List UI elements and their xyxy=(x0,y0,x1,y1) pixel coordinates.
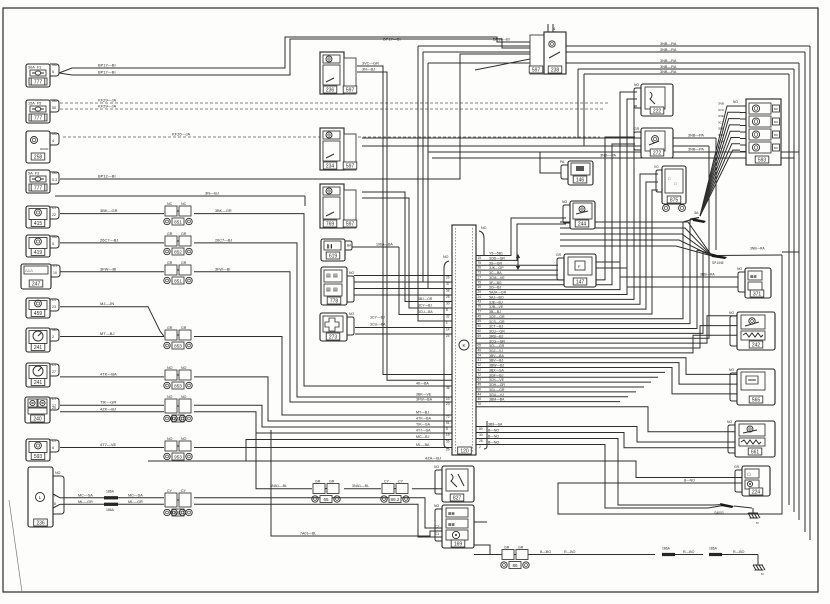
svg-text:76: 76 xyxy=(478,402,482,406)
svg-text:5: 5 xyxy=(52,70,54,74)
svg-text:4TK—BA: 4TK—BA xyxy=(100,371,117,376)
svg-text:MC—BJ: MC—BJ xyxy=(416,435,430,439)
svg-text:4: 4 xyxy=(52,139,54,143)
svg-text:▩▩: ▩▩ xyxy=(448,512,455,516)
svg-text:3OD—GR: 3OD—GR xyxy=(489,256,505,260)
svg-text:30A F1: 30A F1 xyxy=(28,66,41,70)
svg-text:C7: C7 xyxy=(52,439,57,443)
svg-text:NO: NO xyxy=(52,132,58,136)
svg-text:3GU—VJ: 3GU—VJ xyxy=(489,393,504,397)
svg-text:C7: C7 xyxy=(52,363,57,367)
svg-text:GR: GR xyxy=(167,326,173,330)
svg-text:224: 224 xyxy=(752,489,761,495)
svg-text:3CK: 3CK xyxy=(718,146,724,150)
svg-text:GR: GR xyxy=(329,480,335,484)
svg-text:75: 75 xyxy=(478,305,482,309)
svg-text:16: 16 xyxy=(478,285,482,289)
svg-text:3NB—RA: 3NB—RA xyxy=(660,42,677,46)
svg-text:51: 51 xyxy=(446,421,450,425)
svg-text:7A01—BL: 7A01—BL xyxy=(300,532,316,536)
svg-text:186A: 186A xyxy=(709,547,718,551)
svg-text:65: 65 xyxy=(478,344,482,348)
svg-text:B—BO: B—BO xyxy=(540,550,551,554)
svg-text:3A: 3A xyxy=(694,211,699,215)
svg-text:C2: C2 xyxy=(435,525,439,529)
svg-text:3JK—GP: 3JK—GP xyxy=(489,266,504,270)
svg-text:186A: 186A xyxy=(106,490,115,494)
svg-text:3CU: 3CU xyxy=(718,108,724,112)
svg-text:3CY—BJ: 3CY—BJ xyxy=(418,304,432,308)
svg-text:3CG—GR: 3CG—GR xyxy=(489,339,505,343)
svg-text:R—BO: R—BO xyxy=(733,550,745,554)
svg-text:240: 240 xyxy=(33,416,42,422)
svg-text:NO: NO xyxy=(181,437,187,441)
svg-text:BP17—BI: BP17—BI xyxy=(493,37,510,41)
svg-text:G4003: G4003 xyxy=(714,511,724,515)
svg-text:C7: C7 xyxy=(52,298,57,302)
svg-text:241: 241 xyxy=(34,380,43,386)
svg-text:3NB—RA: 3NB—RA xyxy=(660,48,677,52)
svg-text:GR: GR xyxy=(167,261,173,265)
svg-text:MJ—JN: MJ—JN xyxy=(100,301,114,306)
svg-text:NO: NO xyxy=(52,328,58,332)
svg-text:30: 30 xyxy=(479,433,483,437)
svg-text:4T7—VE: 4T7—VE xyxy=(100,442,117,447)
svg-text:247: 247 xyxy=(32,281,41,287)
svg-text:769: 769 xyxy=(326,221,335,227)
svg-text:236: 236 xyxy=(326,87,335,93)
svg-text:NC: NC xyxy=(167,202,173,206)
svg-text:1: 1 xyxy=(446,321,448,325)
svg-text:12: 12 xyxy=(478,363,482,367)
svg-text:NO: NO xyxy=(729,368,734,372)
svg-text:3CM—VE: 3CM—VE xyxy=(489,276,505,280)
svg-text:49: 49 xyxy=(478,348,482,352)
svg-text:GR: GR xyxy=(556,253,562,257)
svg-text:NO: NO xyxy=(733,100,738,104)
svg-text:3NB—RA: 3NB—RA xyxy=(660,70,677,74)
svg-text:TIK—SA: TIK—SA xyxy=(416,423,431,427)
svg-text:ML—GR: ML—GR xyxy=(78,500,93,504)
svg-text:2: 2 xyxy=(52,335,54,339)
svg-text:3NB—RA: 3NB—RA xyxy=(700,273,715,277)
svg-text:75: 75 xyxy=(478,280,482,284)
svg-text:3NB—PA: 3NB—PA xyxy=(688,148,704,152)
svg-text:4ZA—BJ: 4ZA—BJ xyxy=(425,456,441,461)
svg-text:661: 661 xyxy=(751,449,760,455)
svg-text:777: 777 xyxy=(34,79,43,85)
svg-text:44: 44 xyxy=(478,392,482,396)
svg-text:NO: NO xyxy=(52,235,58,239)
svg-text:41: 41 xyxy=(478,358,482,362)
svg-text:MC—SA: MC—SA xyxy=(128,493,143,497)
svg-text:NO: NO xyxy=(349,271,354,275)
svg-text:258: 258 xyxy=(34,154,43,160)
svg-text:3B—BJ: 3B—BJ xyxy=(489,310,501,314)
svg-text:NO: NO xyxy=(481,226,487,230)
svg-text:ML—BA: ML—BA xyxy=(416,443,430,447)
svg-text:3BK—VE: 3BK—VE xyxy=(416,393,432,397)
svg-text:3CE—GR: 3CE—GR xyxy=(489,315,505,319)
svg-text:KF29—JA: KF29—JA xyxy=(98,98,117,103)
svg-text:3JB—VE: 3JB—VE xyxy=(489,305,504,309)
svg-text:244: 244 xyxy=(578,221,587,227)
svg-text:3CK—VE: 3CK—VE xyxy=(489,378,505,382)
svg-text:2: 2 xyxy=(479,445,481,449)
svg-text:73: 73 xyxy=(478,271,482,275)
svg-text:3VC—GR: 3VC—GR xyxy=(362,62,379,66)
svg-text:KF26—JA: KF26—JA xyxy=(172,132,191,137)
svg-text:GR: GR xyxy=(634,127,640,131)
svg-text:7: 7 xyxy=(54,494,56,498)
svg-text:C1: C1 xyxy=(435,532,439,536)
svg-text:3BV—BA: 3BV—BA xyxy=(489,354,504,358)
svg-text:72: 72 xyxy=(446,415,450,419)
svg-text:BP17—BI: BP17—BI xyxy=(98,70,116,75)
svg-text:597: 597 xyxy=(346,221,355,227)
svg-text:CY: CY xyxy=(398,480,404,484)
svg-text:3BK—GR: 3BK—GR xyxy=(215,209,232,213)
svg-text:241: 241 xyxy=(34,345,43,351)
svg-text:45: 45 xyxy=(478,314,482,318)
svg-text:74: 74 xyxy=(478,353,482,357)
svg-text:853: 853 xyxy=(174,383,182,388)
svg-text:C7: C7 xyxy=(53,264,58,268)
svg-text:593: 593 xyxy=(758,157,767,163)
svg-text:5AJA—GR: 5AJA—GR xyxy=(489,291,507,295)
svg-text:B—NO: B—NO xyxy=(684,479,695,483)
svg-text:3NA1—BL: 3NA1—BL xyxy=(270,484,287,488)
svg-text:CY: CY xyxy=(181,489,187,493)
svg-text:851: 851 xyxy=(174,278,182,283)
svg-text:3B9—SA: 3B9—SA xyxy=(488,423,503,427)
svg-text:NO: NO xyxy=(52,63,58,67)
svg-text:8: 8 xyxy=(54,502,56,506)
svg-text:NO: NO xyxy=(434,465,439,469)
svg-text:86: 86 xyxy=(512,563,518,568)
svg-text:BP17—BI: BP17—BI xyxy=(98,63,116,68)
svg-text:86.2: 86.2 xyxy=(391,497,400,502)
svg-text:565: 565 xyxy=(752,397,761,403)
svg-text:14: 14 xyxy=(446,328,450,332)
svg-text:60: 60 xyxy=(478,329,482,333)
svg-text:▤: ▤ xyxy=(333,273,338,279)
svg-text:3S—GR: 3S—GR xyxy=(489,261,503,265)
svg-text:147: 147 xyxy=(576,279,585,285)
svg-text:MT—BJ: MT—BJ xyxy=(416,411,429,415)
svg-text:619: 619 xyxy=(329,253,338,259)
svg-text:28: 28 xyxy=(479,439,483,443)
svg-text:3CU—GR: 3CU—GR xyxy=(489,330,505,334)
svg-text:NO: NO xyxy=(167,437,173,441)
svg-text:VO: VO xyxy=(654,165,659,169)
svg-text:▩▩: ▩▩ xyxy=(750,275,757,279)
svg-text:GR: GR xyxy=(315,480,321,484)
svg-text:15: 15 xyxy=(478,256,482,260)
svg-text:BP12—BI: BP12—BI xyxy=(98,174,116,179)
svg-text:GR: GR xyxy=(181,261,187,265)
svg-text:3GL—GR: 3GL—GR xyxy=(489,388,505,392)
svg-text:4K—BA: 4K—BA xyxy=(416,382,429,386)
svg-text:B—NO: B—NO xyxy=(488,441,499,445)
svg-text:3CA: 3CA xyxy=(718,133,724,137)
svg-text:GR: GR xyxy=(734,465,740,469)
svg-text:272: 272 xyxy=(653,150,662,156)
svg-text:3OH—GR: 3OH—GR xyxy=(489,383,505,387)
svg-text:3BK—GR: 3BK—GR xyxy=(100,208,118,213)
svg-text:5A F3: 5A F3 xyxy=(28,172,39,176)
svg-text:3FW—BA: 3FW—BA xyxy=(416,398,433,402)
svg-text:▤: ▤ xyxy=(333,287,338,293)
svg-text:3N—BJ: 3N—BJ xyxy=(362,68,375,72)
svg-text:NO: NO xyxy=(52,99,58,103)
svg-text:CY: CY xyxy=(384,480,390,484)
svg-text:120: 120 xyxy=(460,448,469,454)
svg-text:3FW—BI: 3FW—BI xyxy=(215,267,230,271)
svg-text:3N—BJ: 3N—BJ xyxy=(205,191,219,196)
svg-text:SP.LINE: SP.LINE xyxy=(712,261,724,265)
svg-text:851: 851 xyxy=(174,219,182,224)
svg-text:8: 8 xyxy=(446,308,448,312)
svg-text:NC: NC xyxy=(181,202,187,206)
svg-text:10: 10 xyxy=(446,397,450,401)
svg-text:GR: GR xyxy=(181,326,187,330)
svg-text:3BV—BJ: 3BV—BJ xyxy=(489,359,503,363)
svg-text:3NB—RA: 3NB—RA xyxy=(660,65,677,69)
svg-text:NO: NO xyxy=(562,200,567,204)
svg-text:△△△: △△△ xyxy=(25,269,33,273)
svg-text:222: 222 xyxy=(653,108,662,114)
svg-text:56: 56 xyxy=(446,440,450,444)
svg-text:4ZK—BJ: 4ZK—BJ xyxy=(100,406,116,411)
svg-text:17: 17 xyxy=(478,275,482,279)
svg-text:597: 597 xyxy=(346,163,355,169)
svg-text:50: 50 xyxy=(478,324,482,328)
svg-text:▢: ▢ xyxy=(747,473,751,477)
svg-text:3CU—BA: 3CU—BA xyxy=(370,323,386,327)
svg-text:146: 146 xyxy=(576,177,585,183)
svg-text:3G—BJ: 3G—BJ xyxy=(489,286,502,290)
svg-text:778: 778 xyxy=(330,298,339,304)
svg-text:45: 45 xyxy=(478,383,482,387)
svg-text:30: 30 xyxy=(446,302,450,306)
svg-text:GR: GR xyxy=(181,232,187,236)
svg-text:3NB: 3NB xyxy=(718,102,724,106)
svg-text:3NB—RA: 3NB—RA xyxy=(750,247,765,251)
svg-text:3GJ—VJ: 3GJ—VJ xyxy=(489,349,503,353)
svg-text:15A F5: 15A F5 xyxy=(28,102,41,106)
svg-text:B—NO: B—NO xyxy=(488,435,499,439)
svg-text:NO: NO xyxy=(167,366,173,370)
svg-text:K: K xyxy=(462,343,465,348)
svg-text:273: 273 xyxy=(329,334,338,340)
svg-text:10: 10 xyxy=(53,271,57,275)
svg-text:▤: ▤ xyxy=(326,287,331,293)
svg-text:NO: NO xyxy=(181,366,187,370)
svg-text:597: 597 xyxy=(346,87,355,93)
svg-text:NO: NO xyxy=(634,83,639,87)
svg-text:GR: GR xyxy=(518,546,524,550)
svg-text:3NB—PA: 3NB—PA xyxy=(600,154,616,158)
svg-text:777: 777 xyxy=(34,185,43,191)
svg-text:29: 29 xyxy=(478,290,482,294)
svg-text:00000: 00000 xyxy=(40,147,49,151)
svg-text:186A: 186A xyxy=(106,508,115,512)
svg-text:169: 169 xyxy=(454,541,463,547)
svg-text:875: 875 xyxy=(670,197,679,203)
svg-text:32: 32 xyxy=(446,315,450,319)
svg-text:46: 46 xyxy=(478,397,482,401)
svg-text:80: 80 xyxy=(479,427,483,431)
svg-text:72: 72 xyxy=(478,373,482,377)
svg-text:19: 19 xyxy=(446,433,450,437)
svg-text:23: 23 xyxy=(52,305,56,309)
svg-text:37: 37 xyxy=(446,282,450,286)
svg-text:27: 27 xyxy=(52,370,56,374)
svg-text:777: 777 xyxy=(34,115,43,121)
svg-text:69: 69 xyxy=(478,334,482,338)
svg-text:NO: NO xyxy=(729,311,734,315)
svg-text:3CT—BJ: 3CT—BJ xyxy=(489,325,503,329)
svg-text:26C7—BJ: 26C7—BJ xyxy=(215,238,232,242)
svg-text:▩▩: ▩▩ xyxy=(448,523,455,527)
svg-text:NO: NO xyxy=(55,471,61,475)
svg-text:196A—BA: 196A—BA xyxy=(376,243,393,247)
svg-text:90: 90 xyxy=(478,387,482,391)
svg-text:853: 853 xyxy=(174,343,182,348)
svg-text:B—NO: B—NO xyxy=(488,429,499,433)
svg-text:953: 953 xyxy=(174,454,182,459)
svg-text:KF29—JA: KF29—JA xyxy=(98,104,117,109)
svg-text:22: 22 xyxy=(52,213,56,217)
svg-text:827: 827 xyxy=(453,495,462,501)
svg-text:ML—GR: ML—GR xyxy=(128,500,143,504)
svg-text:3C—BA: 3C—BA xyxy=(489,271,502,275)
svg-text:3NA1—BL: 3NA1—BL xyxy=(352,484,369,488)
svg-text:NO: NO xyxy=(737,267,742,271)
svg-text:NO: NO xyxy=(443,255,449,259)
svg-text:3CY—BJ: 3CY—BJ xyxy=(370,316,385,320)
svg-text:3NB: 3NB xyxy=(718,127,724,131)
svg-text:3F—BG: 3F—BG xyxy=(489,281,502,285)
svg-text:236: 236 xyxy=(36,520,45,526)
svg-text:3BW—BJ: 3BW—BJ xyxy=(489,364,504,368)
svg-text:5: 5 xyxy=(52,242,54,246)
svg-text:NO: NO xyxy=(434,504,439,508)
svg-text:NO: NO xyxy=(349,312,354,316)
svg-text:R—BO: R—BO xyxy=(683,550,695,554)
svg-text:371: 371 xyxy=(753,291,762,297)
svg-text:63: 63 xyxy=(478,378,482,382)
svg-text:6: 6 xyxy=(52,446,54,450)
svg-text:3NB—RA: 3NB—RA xyxy=(660,59,677,63)
svg-text:26: 26 xyxy=(478,266,482,270)
svg-text:R—BO: R—BO xyxy=(564,550,576,554)
svg-text:NO: NO xyxy=(167,395,173,399)
svg-text:5AJ—BO: 5AJ—BO xyxy=(489,295,504,299)
svg-text:3NB—PA: 3NB—PA xyxy=(688,134,704,138)
svg-text:3RB—BJ: 3RB—BJ xyxy=(489,334,504,338)
svg-text:MC—SA: MC—SA xyxy=(78,493,93,497)
svg-text:4T7—SA: 4T7—SA xyxy=(416,429,431,433)
svg-text:242: 242 xyxy=(752,342,761,348)
svg-text:43: 43 xyxy=(478,300,482,304)
svg-text:BP17—BI: BP17—BI xyxy=(383,37,401,42)
svg-text:TIK—GR: TIK—GR xyxy=(100,400,116,405)
svg-text:4BJ—GR: 4BJ—GR xyxy=(418,297,433,301)
svg-text:3GF—BJ: 3GF—BJ xyxy=(489,373,504,377)
svg-text:23: 23 xyxy=(446,402,450,406)
svg-text:5.3: 5.3 xyxy=(52,178,57,182)
svg-text:36: 36 xyxy=(446,386,450,390)
svg-text:55: 55 xyxy=(52,106,56,110)
svg-text:459: 459 xyxy=(34,311,43,317)
svg-text:3CS—GR: 3CS—GR xyxy=(489,320,505,324)
svg-text:419: 419 xyxy=(34,250,43,256)
svg-text:58: 58 xyxy=(446,289,450,293)
svg-text:4TK—BA: 4TK—BA xyxy=(416,417,432,421)
svg-text:24: 24 xyxy=(446,334,450,338)
svg-text:3NE: 3NE xyxy=(718,114,724,118)
svg-text:42: 42 xyxy=(478,368,482,372)
svg-text:C7: C7 xyxy=(52,397,57,401)
svg-text:3BM—BA: 3BM—BA xyxy=(489,398,505,402)
svg-text:3CU—BA: 3CU—BA xyxy=(418,310,433,314)
svg-text:593: 593 xyxy=(34,454,43,460)
svg-text:26: 26 xyxy=(446,276,450,280)
svg-text:MT—BJ: MT—BJ xyxy=(100,331,114,336)
svg-text:415: 415 xyxy=(34,221,43,227)
svg-text:3CT: 3CT xyxy=(718,120,724,124)
svg-text:77: 77 xyxy=(478,309,482,313)
svg-text:▤: ▤ xyxy=(326,273,331,279)
svg-text:C7: C7 xyxy=(52,206,57,210)
svg-text:25: 25 xyxy=(446,295,450,299)
svg-text:GR: GR xyxy=(504,546,510,550)
svg-text:65: 65 xyxy=(323,497,329,502)
svg-text:3CL—GR: 3CL—GR xyxy=(489,344,505,348)
svg-text:3CX: 3CX xyxy=(718,139,724,143)
svg-text:597: 597 xyxy=(532,67,541,73)
svg-text:NO: NO xyxy=(52,171,58,175)
svg-text:186A: 186A xyxy=(662,547,671,551)
svg-text:238: 238 xyxy=(551,67,560,73)
svg-text:NO: NO xyxy=(181,395,187,399)
svg-text:59: 59 xyxy=(478,319,482,323)
svg-text:3BX—SA: 3BX—SA xyxy=(489,368,504,372)
svg-text:234: 234 xyxy=(326,163,335,169)
svg-text:852: 852 xyxy=(174,249,182,254)
svg-text:5: 5 xyxy=(446,427,448,431)
svg-text:26C7—BJ: 26C7—BJ xyxy=(100,237,118,242)
svg-text:24: 24 xyxy=(478,295,482,299)
svg-text:Y5—5B1: Y5—5B1 xyxy=(489,252,503,256)
svg-text:GR: GR xyxy=(167,232,173,236)
svg-text:75: 75 xyxy=(478,261,482,265)
svg-text:CY: CY xyxy=(167,489,173,493)
svg-text:NO: NO xyxy=(727,420,732,424)
svg-text:PA: PA xyxy=(560,160,565,164)
svg-text:3FW—BI: 3FW—BI xyxy=(100,266,116,271)
svg-text:3JE—BJ: 3JE—BJ xyxy=(489,300,503,304)
svg-text:20: 20 xyxy=(52,406,56,410)
